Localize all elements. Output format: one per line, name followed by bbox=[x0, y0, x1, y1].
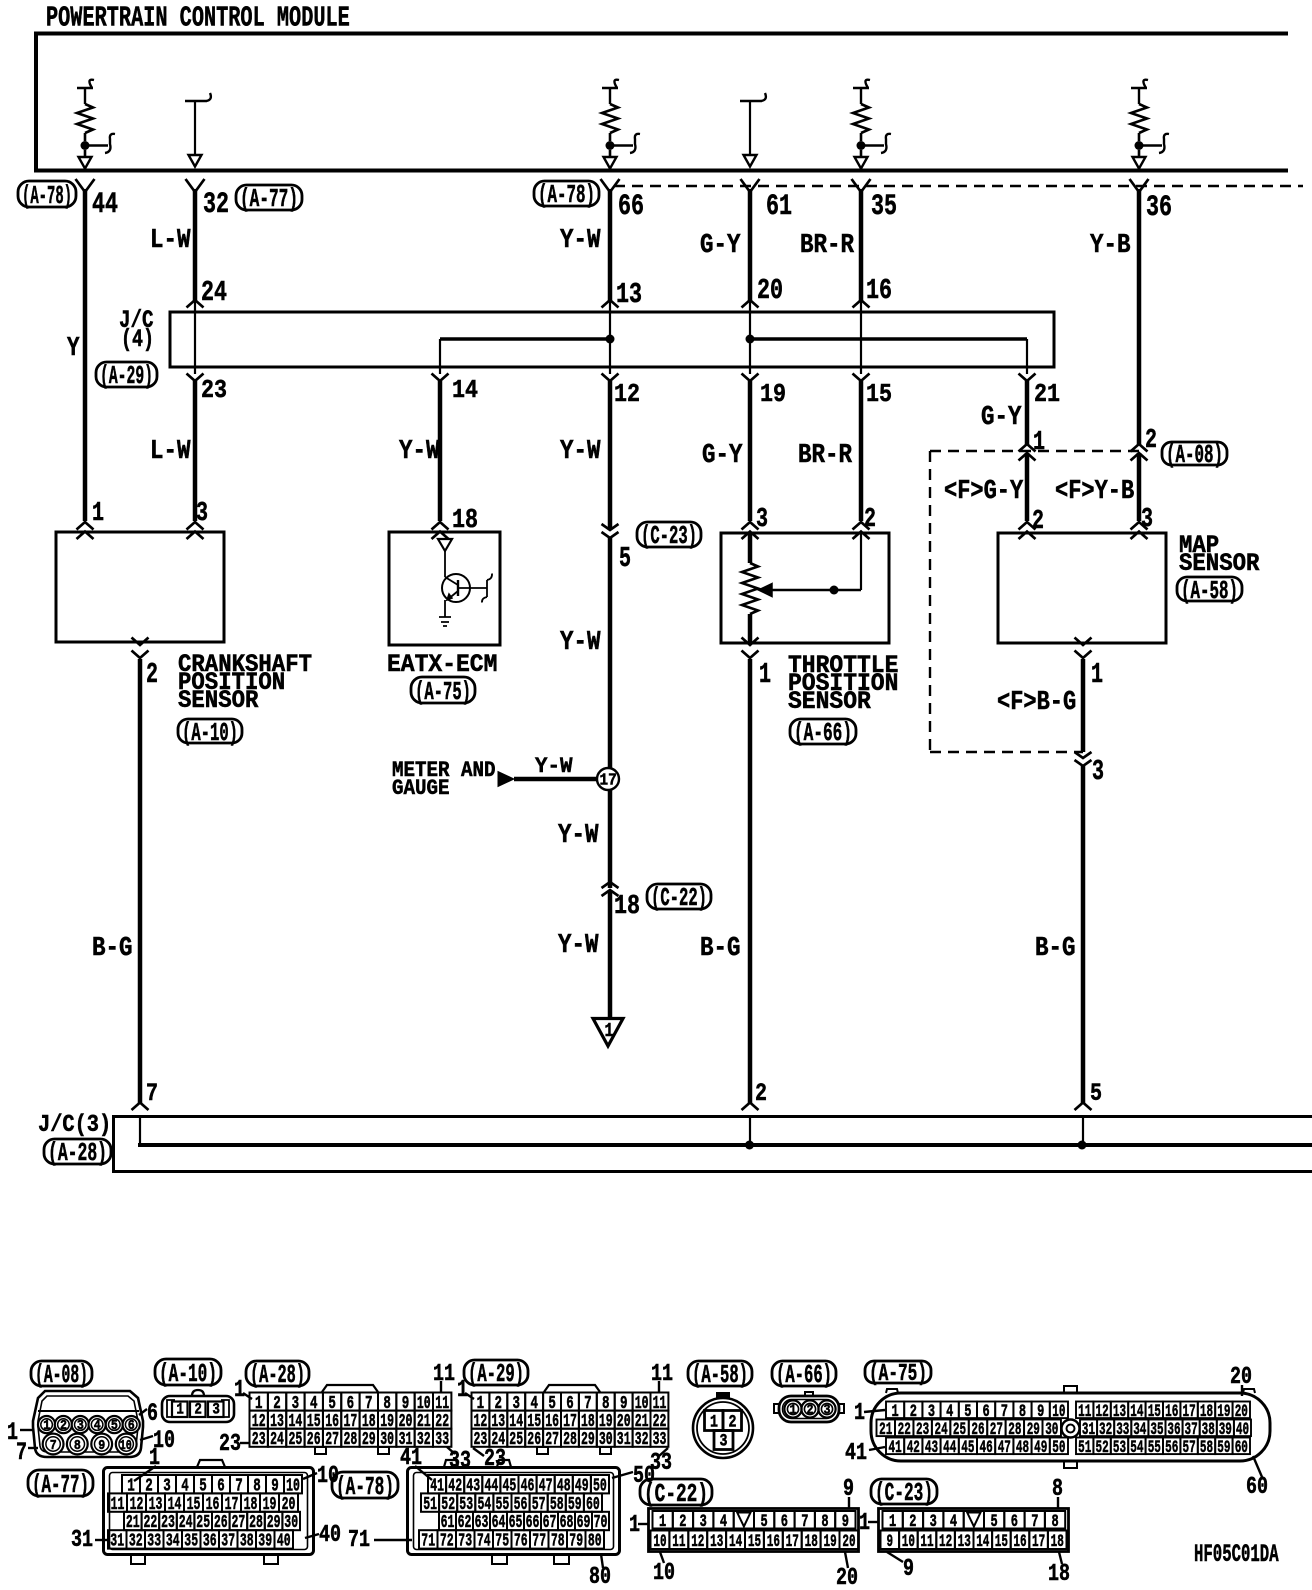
wire Y-B from pin 36 to A-08 boundary bbox=[1137, 189, 1142, 445]
svg-text:14: 14 bbox=[452, 375, 478, 405]
svg-text:(A-66): (A-66) bbox=[776, 1360, 832, 1390]
svg-text:49: 49 bbox=[1034, 1438, 1047, 1458]
svg-text:1: 1 bbox=[234, 1377, 245, 1404]
connector A-08 pinout bbox=[7, 1360, 175, 1467]
svg-text:15: 15 bbox=[748, 1532, 761, 1552]
svg-text:L-W: L-W bbox=[150, 437, 191, 467]
TPS pin 2 bbox=[853, 505, 877, 539]
crank sensor pin 2 bbox=[132, 638, 159, 692]
label Y-W bbox=[558, 821, 599, 851]
svg-text:1: 1 bbox=[790, 1403, 797, 1419]
connector label A-10 bbox=[178, 718, 242, 748]
svg-text:24: 24 bbox=[201, 276, 227, 309]
label B-G bbox=[92, 934, 133, 964]
wire Y-W from J/C(4) pin 14 to EATX-ECM pin 18 bbox=[438, 381, 443, 521]
svg-text:41: 41 bbox=[889, 1438, 902, 1458]
J/C(3) pin 7 bbox=[132, 1079, 159, 1110]
svg-text:60: 60 bbox=[1235, 1438, 1248, 1458]
svg-text:29: 29 bbox=[362, 1428, 376, 1450]
svg-text:Y-W: Y-W bbox=[535, 753, 573, 779]
svg-text:(A-10): (A-10) bbox=[182, 718, 238, 748]
J/C(4) internal wire 24-23 bbox=[194, 300, 196, 374]
svg-text:1: 1 bbox=[176, 1401, 184, 1419]
svg-text:15: 15 bbox=[866, 379, 892, 409]
svg-text:73: 73 bbox=[458, 1530, 472, 1552]
svg-text:18: 18 bbox=[452, 506, 478, 536]
wire Y from pin 44 to crank sensor pin 1 bbox=[83, 189, 88, 521]
svg-text:17: 17 bbox=[600, 771, 617, 790]
svg-text:1: 1 bbox=[859, 1510, 870, 1537]
TPS pin 1 bbox=[742, 638, 772, 692]
svg-text:9: 9 bbox=[903, 1556, 914, 1583]
label B-G bbox=[1035, 934, 1076, 964]
svg-text:54: 54 bbox=[1130, 1438, 1143, 1458]
wire G-Y from J/C(4) pin 21 to A-08 boundary bbox=[1025, 381, 1030, 445]
svg-text:1: 1 bbox=[1033, 428, 1045, 458]
svg-text:B-G: B-G bbox=[700, 934, 741, 964]
svg-text:(4): (4) bbox=[121, 325, 154, 354]
svg-text:1: 1 bbox=[889, 1512, 896, 1532]
wire G-Y from pin 61 to J/C(4) pin 20 bbox=[748, 189, 753, 301]
MAP sensor box bbox=[998, 533, 1166, 643]
svg-text:35: 35 bbox=[184, 1530, 198, 1552]
connector label A-75 bbox=[411, 677, 475, 707]
svg-text:16: 16 bbox=[767, 1532, 780, 1552]
svg-text:8: 8 bbox=[1052, 1512, 1059, 1532]
EATX-ECM pin 18 bbox=[432, 506, 479, 539]
TPS pin 3 bbox=[742, 505, 769, 539]
connector label A-77 bbox=[236, 184, 302, 214]
J/C(3) pin 5 bbox=[1075, 1079, 1103, 1110]
svg-text:50: 50 bbox=[1052, 1438, 1065, 1458]
svg-text:(A-77): (A-77) bbox=[32, 1470, 89, 1500]
svg-text:5: 5 bbox=[1090, 1079, 1102, 1108]
svg-text:16: 16 bbox=[866, 274, 892, 307]
svg-text:28: 28 bbox=[563, 1428, 577, 1450]
label (F)Y-B bbox=[1055, 477, 1134, 507]
svg-text:14: 14 bbox=[976, 1532, 989, 1552]
junction connector J/C(3) label bbox=[38, 1112, 111, 1139]
svg-text:57: 57 bbox=[1183, 1438, 1196, 1458]
svg-text:17: 17 bbox=[786, 1532, 799, 1552]
svg-text:1: 1 bbox=[854, 1400, 865, 1427]
svg-text:(A-10): (A-10) bbox=[159, 1359, 217, 1389]
svg-text:74: 74 bbox=[477, 1530, 491, 1552]
wire (F)G-Y from A-08 to MAP pin 2 bbox=[1025, 453, 1030, 521]
drawing number HF05C01DA bbox=[1194, 1542, 1279, 1569]
connector label A-29 bbox=[96, 361, 157, 391]
svg-text:Y-B: Y-B bbox=[1090, 231, 1131, 261]
svg-text:1: 1 bbox=[605, 1020, 614, 1042]
output driver on PCM pin 61 bbox=[740, 93, 766, 167]
A-08 crossing pin 2 / 3 on Y-B bbox=[1131, 426, 1158, 535]
svg-text:7: 7 bbox=[1031, 1512, 1038, 1532]
svg-text:SENSOR: SENSOR bbox=[788, 689, 871, 716]
svg-text:G-Y: G-Y bbox=[700, 231, 741, 261]
wire (F)Y-B from A-08 to MAP pin 3 bbox=[1137, 453, 1142, 521]
connector A-66 pinout bbox=[772, 1360, 844, 1422]
resistor pull-up on PCM pin 36 bbox=[1131, 80, 1169, 169]
svg-text:3: 3 bbox=[824, 1403, 831, 1419]
svg-text:11: 11 bbox=[651, 1361, 673, 1388]
svg-text:20: 20 bbox=[836, 1565, 858, 1590]
svg-text:5: 5 bbox=[991, 1512, 998, 1532]
svg-text:44: 44 bbox=[943, 1438, 956, 1458]
svg-text:33: 33 bbox=[147, 1530, 161, 1552]
svg-text:36: 36 bbox=[203, 1530, 217, 1552]
svg-text:40: 40 bbox=[319, 1522, 341, 1549]
J/C(4) pin 19 bbox=[742, 374, 787, 410]
label Y-W bbox=[535, 753, 573, 779]
svg-text:J/C(3): J/C(3) bbox=[38, 1112, 111, 1139]
svg-text:(A-58): (A-58) bbox=[692, 1360, 748, 1390]
svg-text:9: 9 bbox=[98, 1438, 105, 1454]
svg-text:<F>B-G: <F>B-G bbox=[997, 688, 1076, 718]
label CRANKSHAFT POSITION SENSOR bbox=[178, 652, 312, 715]
EATX-ECM box bbox=[389, 532, 500, 645]
svg-text:7: 7 bbox=[801, 1512, 808, 1532]
svg-text:31: 31 bbox=[110, 1530, 124, 1552]
svg-text:11: 11 bbox=[920, 1532, 933, 1552]
svg-text:78: 78 bbox=[551, 1530, 565, 1552]
svg-text:(A-58): (A-58) bbox=[1181, 576, 1238, 606]
connector label A-58 bbox=[1177, 576, 1242, 606]
svg-text:3: 3 bbox=[196, 499, 208, 529]
svg-text:13: 13 bbox=[710, 1532, 723, 1552]
svg-text:12: 12 bbox=[939, 1532, 952, 1552]
label B-G bbox=[700, 934, 741, 964]
svg-text:9: 9 bbox=[887, 1532, 894, 1552]
svg-text:2: 2 bbox=[909, 1512, 916, 1532]
svg-text:36: 36 bbox=[1146, 190, 1172, 224]
svg-text:76: 76 bbox=[514, 1530, 528, 1552]
label Y-W bbox=[399, 437, 440, 467]
svg-text:20: 20 bbox=[842, 1532, 855, 1552]
crank sensor pin 3 bbox=[187, 499, 209, 539]
EATX-ECM internal transistor U1 bbox=[438, 539, 492, 626]
svg-text:51: 51 bbox=[1078, 1438, 1091, 1458]
svg-text:(A-28): (A-28) bbox=[48, 1138, 107, 1168]
svg-text:Y: Y bbox=[67, 334, 80, 364]
svg-text:25: 25 bbox=[289, 1428, 303, 1450]
svg-text:18: 18 bbox=[805, 1532, 818, 1552]
wire (F)B-G from MAP pin 1 to A-08 boundary bbox=[1081, 659, 1086, 752]
svg-text:5: 5 bbox=[761, 1512, 768, 1532]
svg-text:Y-W: Y-W bbox=[560, 437, 601, 467]
svg-text:18: 18 bbox=[1048, 1561, 1070, 1588]
svg-text:59: 59 bbox=[1217, 1438, 1230, 1458]
wire Y-W from C-22 to ground bbox=[608, 890, 613, 1018]
svg-text:1: 1 bbox=[659, 1512, 666, 1532]
svg-text:7: 7 bbox=[146, 1079, 158, 1108]
svg-text:6: 6 bbox=[128, 1418, 135, 1434]
svg-text:(A-29): (A-29) bbox=[100, 361, 153, 391]
svg-text:6: 6 bbox=[1011, 1512, 1018, 1532]
wire Y-W from C-23 to meter junction bbox=[608, 538, 613, 768]
svg-text:61: 61 bbox=[766, 189, 792, 223]
svg-text:(A-78): (A-78) bbox=[538, 180, 595, 210]
label G-Y bbox=[981, 403, 1022, 433]
MAP pin 3 bbox=[1131, 522, 1148, 539]
label Y-W bbox=[558, 931, 599, 961]
svg-text:2: 2 bbox=[729, 1414, 737, 1433]
TPS internal potentiometer bbox=[742, 533, 861, 643]
J/C(4) box bbox=[170, 312, 1054, 367]
svg-text:11: 11 bbox=[433, 1361, 455, 1388]
connector A-77 pinout bbox=[28, 1445, 341, 1564]
svg-text:(A-78): (A-78) bbox=[336, 1472, 394, 1502]
A-08 crossing pin 1 / 2 on G-Y bbox=[1019, 428, 1046, 537]
output driver on PCM pin 32 bbox=[185, 93, 211, 167]
svg-text:42: 42 bbox=[907, 1438, 920, 1458]
label EATX-ECM bbox=[387, 652, 497, 679]
J/C(4) pin 20 bbox=[742, 274, 784, 308]
crank sensor pin 1 bbox=[77, 499, 105, 539]
svg-text:35: 35 bbox=[871, 189, 897, 223]
connector A-10 pinout bbox=[155, 1359, 234, 1422]
svg-text:4: 4 bbox=[950, 1512, 957, 1532]
svg-text:15: 15 bbox=[995, 1532, 1008, 1552]
pin 36 bbox=[1130, 179, 1173, 224]
svg-text:3: 3 bbox=[756, 505, 768, 535]
J/C(4) pin 24 bbox=[187, 276, 228, 309]
svg-text:21: 21 bbox=[1034, 379, 1060, 409]
J/C(4) pin 16 bbox=[853, 274, 893, 308]
crankshaft position sensor box bbox=[56, 532, 224, 642]
svg-text:SENSOR: SENSOR bbox=[178, 688, 259, 715]
J/C(4) pin 12 bbox=[602, 374, 641, 410]
svg-text:71: 71 bbox=[348, 1527, 370, 1554]
svg-text:80: 80 bbox=[588, 1530, 602, 1552]
svg-text:40: 40 bbox=[277, 1530, 291, 1552]
label L-W bbox=[150, 437, 191, 467]
svg-text:60: 60 bbox=[1246, 1474, 1268, 1501]
pin 44 bbox=[76, 179, 119, 221]
label Y bbox=[67, 334, 80, 364]
svg-text:16: 16 bbox=[1013, 1532, 1026, 1552]
J/C(4) pin 23 bbox=[187, 374, 228, 406]
svg-text:48: 48 bbox=[1016, 1438, 1029, 1458]
svg-text:3: 3 bbox=[1141, 505, 1153, 535]
svg-text:BR-R: BR-R bbox=[798, 441, 853, 471]
connector C-23 pinout bbox=[859, 1476, 1070, 1588]
svg-text:5: 5 bbox=[619, 542, 631, 575]
svg-text:<F>Y-B: <F>Y-B bbox=[1055, 477, 1134, 507]
svg-text:28: 28 bbox=[344, 1428, 358, 1450]
MAP pin 2 bbox=[1019, 522, 1036, 539]
resistor pull-up on PCM pin 35 bbox=[853, 80, 891, 169]
pin 66 bbox=[601, 179, 645, 223]
svg-text:<F>G-Y: <F>G-Y bbox=[944, 477, 1024, 507]
connector A-58 pinout bbox=[688, 1360, 753, 1458]
pin 35 bbox=[852, 179, 898, 223]
svg-text:(C-22): (C-22) bbox=[651, 883, 707, 913]
svg-text:7: 7 bbox=[50, 1438, 57, 1454]
label METER AND GAUGE bbox=[392, 757, 496, 801]
svg-text:32: 32 bbox=[129, 1530, 143, 1552]
svg-text:34: 34 bbox=[166, 1530, 180, 1552]
svg-text:3: 3 bbox=[930, 1512, 937, 1532]
inline connector C-23 pin 5 on Y-W bbox=[602, 524, 632, 575]
svg-text:19: 19 bbox=[824, 1532, 837, 1552]
label BR-R bbox=[800, 231, 855, 261]
svg-text:6: 6 bbox=[781, 1512, 788, 1532]
svg-text:HF05C01DA: HF05C01DA bbox=[1194, 1542, 1279, 1569]
svg-text:1: 1 bbox=[759, 658, 771, 691]
svg-text:52: 52 bbox=[1096, 1438, 1109, 1458]
svg-text:Y-W: Y-W bbox=[558, 931, 599, 961]
label THROTTLE POSITION SENSOR bbox=[788, 653, 898, 716]
connector label A-28 (J/C3) bbox=[44, 1138, 111, 1168]
svg-text:1: 1 bbox=[1091, 658, 1103, 691]
label BR-R bbox=[798, 441, 853, 471]
svg-text:31: 31 bbox=[617, 1428, 631, 1450]
svg-text:20: 20 bbox=[757, 274, 783, 307]
svg-text:72: 72 bbox=[440, 1530, 454, 1552]
svg-text:2: 2 bbox=[679, 1512, 686, 1532]
svg-text:12: 12 bbox=[691, 1532, 704, 1552]
svg-text:EATX-ECM: EATX-ECM bbox=[387, 652, 497, 679]
svg-text:2: 2 bbox=[864, 505, 876, 535]
svg-text:23: 23 bbox=[201, 375, 227, 405]
label G-Y bbox=[702, 441, 743, 471]
label Y-W bbox=[560, 628, 601, 658]
connector A-75 pinout bbox=[845, 1361, 1270, 1501]
J/C(4) pin 15 bbox=[853, 374, 893, 410]
svg-text:27: 27 bbox=[325, 1428, 339, 1450]
svg-text:3: 3 bbox=[1092, 755, 1104, 788]
svg-text:(C-22): (C-22) bbox=[644, 1479, 708, 1509]
svg-text:7: 7 bbox=[16, 1438, 27, 1467]
svg-text:(C-23): (C-23) bbox=[641, 521, 697, 551]
svg-text:(A-75): (A-75) bbox=[869, 1361, 927, 1388]
wire B-G from TPS pin 1 to J/C(3) pin 2 bbox=[748, 659, 753, 1103]
svg-text:(A-29): (A-29) bbox=[468, 1359, 524, 1389]
connector label A-78 (left) bbox=[18, 181, 76, 211]
svg-text:Y-W: Y-W bbox=[558, 821, 599, 851]
svg-text:Y-W: Y-W bbox=[399, 437, 440, 467]
svg-text:(A-08): (A-08) bbox=[35, 1360, 88, 1390]
connector A-28 pinout bbox=[219, 1360, 471, 1475]
svg-text:23: 23 bbox=[219, 1431, 241, 1458]
svg-text:BR-R: BR-R bbox=[800, 231, 855, 261]
svg-text:11: 11 bbox=[672, 1532, 685, 1552]
J/C(4) internal wire 16-15 bbox=[860, 300, 862, 374]
svg-text:3: 3 bbox=[700, 1512, 707, 1532]
svg-text:41: 41 bbox=[845, 1440, 867, 1467]
svg-text:(A-28): (A-28) bbox=[250, 1360, 305, 1390]
svg-text:55: 55 bbox=[1148, 1438, 1161, 1458]
svg-text:38: 38 bbox=[240, 1530, 254, 1552]
pin 61 bbox=[741, 179, 793, 223]
svg-text:5: 5 bbox=[111, 1418, 118, 1434]
svg-text:37: 37 bbox=[221, 1530, 235, 1552]
svg-text:(A-08): (A-08) bbox=[1166, 440, 1223, 470]
PCM box outline bbox=[36, 34, 1288, 171]
svg-text:9: 9 bbox=[842, 1512, 849, 1532]
svg-text:B-G: B-G bbox=[1035, 934, 1076, 964]
svg-text:10: 10 bbox=[653, 1560, 675, 1587]
J/C(4) internal wire 20-19 with branch to 21 bbox=[746, 300, 1028, 374]
svg-text:13: 13 bbox=[958, 1532, 971, 1552]
svg-text:2: 2 bbox=[1145, 426, 1157, 456]
label (F)G-Y bbox=[944, 477, 1024, 507]
svg-text:2: 2 bbox=[194, 1401, 202, 1419]
wire B-G from A-08 to J/C(3) pin 5 bbox=[1081, 766, 1086, 1103]
svg-text:8: 8 bbox=[821, 1512, 828, 1532]
svg-text:18: 18 bbox=[614, 892, 640, 922]
svg-text:56: 56 bbox=[1165, 1438, 1178, 1458]
J/C(3) box bbox=[114, 1117, 1312, 1172]
connector label A-08 bbox=[1162, 440, 1227, 470]
J/C(4) pin 21 bbox=[1019, 374, 1061, 410]
wire G-Y from J/C(4) pin 19 to TPS pin 3 bbox=[748, 381, 753, 521]
svg-text:4: 4 bbox=[720, 1512, 727, 1532]
MAP pin 1 bbox=[1075, 638, 1104, 692]
svg-text:10: 10 bbox=[653, 1532, 666, 1552]
resistor pull-up on PCM pin 44 bbox=[77, 80, 115, 169]
svg-text:1: 1 bbox=[457, 1377, 468, 1404]
svg-text:17: 17 bbox=[1032, 1532, 1045, 1552]
svg-text:29: 29 bbox=[581, 1428, 595, 1450]
label G-Y bbox=[700, 231, 741, 261]
svg-text:14: 14 bbox=[729, 1532, 742, 1552]
svg-text:24: 24 bbox=[270, 1428, 284, 1450]
svg-text:79: 79 bbox=[569, 1530, 583, 1552]
svg-text:80: 80 bbox=[589, 1564, 611, 1590]
svg-text:2: 2 bbox=[807, 1403, 814, 1419]
svg-text:46: 46 bbox=[980, 1438, 993, 1458]
J/C(4) pin 13 bbox=[602, 278, 643, 311]
ground symbol node 1 bbox=[593, 1019, 623, 1047]
title POWERTRAIN CONTROL MODULE bbox=[46, 2, 350, 35]
svg-text:Y-W: Y-W bbox=[560, 628, 601, 658]
svg-text:(A-77): (A-77) bbox=[240, 184, 298, 214]
svg-text:44: 44 bbox=[92, 187, 118, 221]
J/C(4) internal wire 13-12 with branch to 14 bbox=[440, 300, 615, 374]
label Y-B bbox=[1090, 231, 1131, 261]
connector label A-78 (middle) bbox=[534, 180, 599, 210]
inline connector C-22 pin 18 bbox=[602, 882, 641, 922]
svg-text:33: 33 bbox=[653, 1428, 667, 1450]
J/C(3) internal bus wire bbox=[138, 1116, 1312, 1150]
svg-text:B-G: B-G bbox=[92, 934, 133, 964]
svg-text:25: 25 bbox=[509, 1428, 523, 1450]
svg-text:53: 53 bbox=[1113, 1438, 1126, 1458]
connector C-22 pinout bbox=[629, 1476, 859, 1590]
svg-text:45: 45 bbox=[961, 1438, 974, 1458]
svg-text:(A-75): (A-75) bbox=[415, 677, 471, 707]
connector label C-23 bbox=[637, 521, 701, 551]
splice node 17 bbox=[597, 768, 619, 790]
svg-text:51: 51 bbox=[423, 1493, 437, 1515]
connector label C-22 bbox=[647, 883, 711, 913]
svg-text:1: 1 bbox=[92, 499, 104, 529]
J/C(4) pin 14 bbox=[432, 374, 479, 406]
svg-text:58: 58 bbox=[1200, 1438, 1213, 1458]
wire L-W from pin 32 to J/C(4) pin 24 bbox=[193, 189, 198, 301]
svg-text:19: 19 bbox=[760, 379, 786, 409]
svg-text:4: 4 bbox=[94, 1418, 101, 1434]
dashed harness boundary line at top bbox=[614, 185, 1303, 187]
label MAP SENSOR bbox=[1179, 533, 1260, 578]
wire Y-W from J/C(4) pin 12 to C-23 pin 5 bbox=[608, 381, 613, 529]
junction connector J/C(4) label bbox=[119, 306, 154, 354]
svg-text:(A-78): (A-78) bbox=[22, 181, 72, 211]
A-08 crossing pin 3 on B-G bbox=[1075, 752, 1105, 788]
label (F)B-G bbox=[997, 688, 1076, 718]
svg-text:SENSOR: SENSOR bbox=[1179, 551, 1260, 578]
